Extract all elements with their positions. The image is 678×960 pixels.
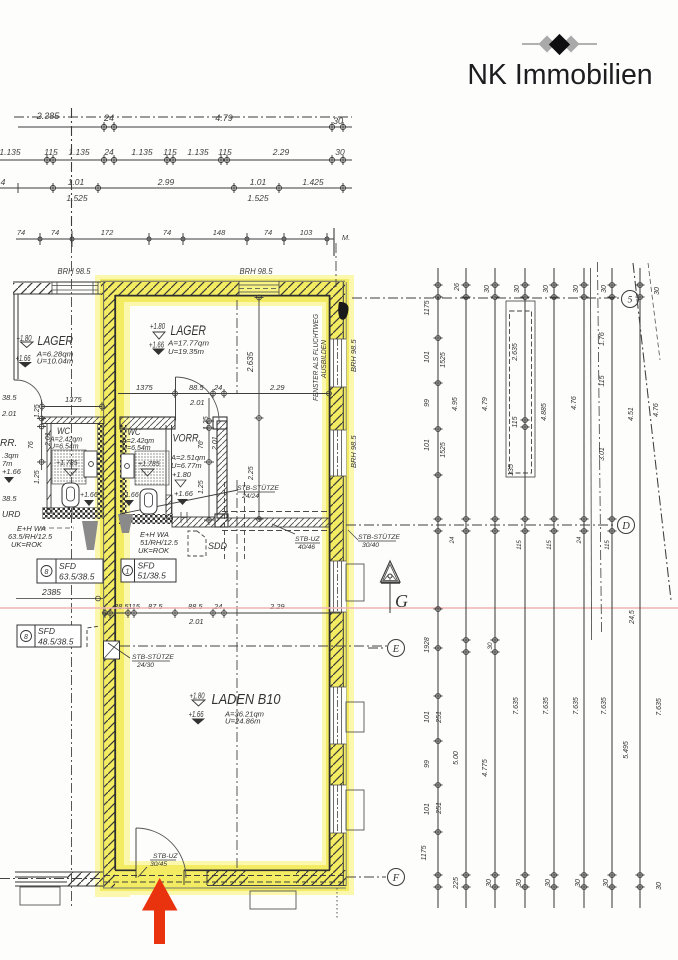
dimension tick circles rows 1-3 <box>18 122 346 247</box>
dim values VORR verticals rotated <box>198 416 255 494</box>
leader line STB-STUETZE 24/24 <box>120 490 238 514</box>
svg-text:1.25: 1.25 <box>203 416 210 430</box>
svg-text:+1.66: +1.66 <box>16 354 31 363</box>
svg-text:30: 30 <box>573 285 580 293</box>
duct funnel left of party wall <box>82 521 98 550</box>
dim row 1 dash-dot line <box>14 116 352 118</box>
svg-text:30: 30 <box>601 285 608 293</box>
svg-text:30: 30 <box>484 285 491 293</box>
left strip partial labels <box>0 393 53 549</box>
svg-text:BRH 98.5: BRH 98.5 <box>58 267 92 276</box>
svg-text:115: 115 <box>218 147 232 157</box>
beam STB-UZ 40/46 <box>228 518 329 527</box>
dim values LADEN y609 <box>114 602 285 626</box>
svg-text:1: 1 <box>126 569 130 576</box>
svg-text:1525: 1525 <box>440 352 447 368</box>
wall band under VORR <box>172 517 215 527</box>
dashed pair vorr-laden passage <box>224 482 226 562</box>
dim values left LAGER <box>65 395 83 404</box>
survey triangle G <box>381 561 401 582</box>
dim row 2 base line <box>0 159 352 161</box>
svg-text:7.635: 7.635 <box>573 697 580 715</box>
SFD box 1 (51/38.5) <box>121 559 176 582</box>
dim vertical x209 VORR <box>208 398 210 525</box>
svg-text:30: 30 <box>603 879 610 887</box>
svg-text:5.495: 5.495 <box>623 741 630 759</box>
circled axis marker E <box>388 640 405 657</box>
svg-text:+1.80: +1.80 <box>190 692 205 701</box>
logo right rule <box>573 43 597 45</box>
wall: top exterior of unit <box>101 282 345 295</box>
svg-text:G: G <box>395 591 408 611</box>
svg-text:1175: 1175 <box>421 845 428 860</box>
svg-text:63.5/38.5: 63.5/38.5 <box>59 572 95 582</box>
wall: WC1 south checkered band <box>42 507 104 519</box>
svg-text:STB-STÜTZE: STB-STÜTZE <box>358 533 400 541</box>
duct funnel right of party wall <box>118 514 133 533</box>
room label LAGER main <box>149 322 209 356</box>
svg-text:38.5: 38.5 <box>2 393 17 402</box>
svg-text:SFD: SFD <box>38 626 55 636</box>
svg-text:4.885: 4.885 <box>541 403 548 421</box>
svg-text:1.525: 1.525 <box>247 193 269 203</box>
svg-text:2.01: 2.01 <box>189 398 205 407</box>
svg-text:NK Immobilien: NK Immobilien <box>467 59 652 91</box>
svg-text:2.635: 2.635 <box>512 343 519 362</box>
svg-text:4.775: 4.775 <box>482 759 489 777</box>
axis dash-dot y877 right of plan <box>346 876 386 878</box>
svg-text:101: 101 <box>424 803 431 815</box>
wall: WC1 west <box>47 423 51 514</box>
svg-text:8: 8 <box>45 569 49 576</box>
WC2 shower stipple <box>135 451 169 485</box>
svg-text:1928: 1928 <box>424 637 431 653</box>
svg-text:2.01: 2.01 <box>212 436 219 451</box>
porch rect below neighbour wall <box>20 887 60 905</box>
wall: LAGER south / WC2 north <box>120 417 175 429</box>
svg-text:24: 24 <box>577 536 583 544</box>
svg-text:UK=ROK: UK=ROK <box>11 540 43 549</box>
svg-text:1375: 1375 <box>136 383 154 392</box>
SFD box 8b (48.5/38.5) <box>17 625 81 647</box>
svg-text:4.79: 4.79 <box>482 397 489 411</box>
svg-text:99: 99 <box>424 399 431 407</box>
circled axis marker 5 <box>622 291 639 308</box>
room label LADEN B10 <box>189 692 281 726</box>
grid line A tick chain <box>434 283 443 890</box>
svg-text:BRH 98.5: BRH 98.5 <box>240 267 274 276</box>
svg-text:SFD: SFD <box>59 561 76 571</box>
svg-text:+1.80: +1.80 <box>172 470 192 479</box>
svg-text:1.76: 1.76 <box>599 332 606 346</box>
svg-text:1175: 1175 <box>424 300 431 315</box>
dashed threshold lines along bottom wall <box>104 876 345 883</box>
svg-text:1.25: 1.25 <box>34 404 41 418</box>
grid vertical lines <box>437 268 439 908</box>
logo small gray diamond left <box>539 36 556 53</box>
svg-text:+1.80: +1.80 <box>150 322 165 331</box>
svg-text:30: 30 <box>514 285 521 293</box>
label STB-UZ 40/46 <box>295 536 320 551</box>
svg-text:30: 30 <box>656 882 663 890</box>
door arc LAGER-VORR <box>176 377 220 421</box>
svg-text:26: 26 <box>454 283 461 292</box>
svg-text:UK=ROK: UK=ROK <box>138 546 170 555</box>
horizontal axis dash-dot y299 to circled 5 <box>352 297 620 299</box>
wall: bottom of unit <box>207 870 346 886</box>
porch rect below unit wall <box>250 891 296 909</box>
svg-text:5: 5 <box>628 296 633 306</box>
dim line LAGER y393 <box>118 393 329 395</box>
svg-text:172: 172 <box>101 228 114 237</box>
wall: right exterior wall piers <box>330 282 343 886</box>
room label WC1 <box>49 426 98 506</box>
column break in left wall (STB 24/30) <box>104 641 120 659</box>
svg-text:30: 30 <box>486 879 493 887</box>
svg-text:38.5: 38.5 <box>2 494 17 503</box>
svg-text:1525: 1525 <box>440 442 447 458</box>
column STB 24/24 <box>215 514 228 527</box>
svg-text:STB-UZ: STB-UZ <box>153 853 178 860</box>
SDD dashed outline <box>188 531 206 556</box>
axis dash-dot x237 through plan <box>236 300 238 394</box>
slanted boundary dash-dot <box>633 263 671 600</box>
svg-text:2.01: 2.01 <box>45 432 52 447</box>
svg-text:STB-STÜTZE: STB-STÜTZE <box>132 653 174 661</box>
svg-text:115: 115 <box>599 375 606 386</box>
svg-text:251: 251 <box>436 711 443 724</box>
wall: WC2/VORR partition <box>166 425 172 514</box>
wall: corner piece at VORR door <box>213 417 227 429</box>
svg-text:24/24: 24/24 <box>241 493 259 500</box>
svg-text:U=6.77m: U=6.77m <box>171 461 202 470</box>
svg-text:M.: M. <box>342 233 350 242</box>
svg-text:2.01: 2.01 <box>188 617 204 626</box>
svg-text:30/45: 30/45 <box>150 861 167 868</box>
svg-text:30: 30 <box>335 147 345 157</box>
leader line STB-STUETZE 24/30 <box>108 643 130 658</box>
dashed stub next to box 8b <box>87 626 100 647</box>
svg-text:2.385: 2.385 <box>36 111 61 121</box>
svg-text:LADEN B10: LADEN B10 <box>212 692 281 708</box>
svg-text:115: 115 <box>128 602 141 611</box>
svg-text:SDD: SDD <box>208 541 228 551</box>
leader line STB-UZ 30/45 <box>138 867 147 877</box>
svg-text:251: 251 <box>436 802 443 815</box>
svg-text:AUSBILDEN: AUSBILDEN <box>321 339 328 379</box>
svg-text:3.01: 3.01 <box>599 447 606 461</box>
svg-text:FENSTER ALS FLUCHTWEG: FENSTER ALS FLUCHTWEG <box>313 313 320 401</box>
svg-text:STB-UZ: STB-UZ <box>295 536 320 543</box>
door arc: neighbour left door <box>16 380 42 406</box>
svg-text:30/40: 30/40 <box>362 542 379 549</box>
dashed second slant <box>648 263 660 360</box>
dim values LAGER y390 <box>136 383 285 407</box>
WC2 washbasin <box>121 454 134 478</box>
svg-text:24/30: 24/30 <box>136 662 154 669</box>
svg-text:RR.: RR. <box>0 438 17 449</box>
svg-text:7.635: 7.635 <box>513 697 520 715</box>
svg-text:103: 103 <box>300 228 313 237</box>
svg-text:51/38.5: 51/38.5 <box>138 571 167 581</box>
svg-text:A=2.42qm: A=2.42qm <box>49 437 82 444</box>
WC1 toilet <box>62 483 79 507</box>
svg-text:30: 30 <box>545 879 552 887</box>
svg-text:BRH 98.5: BRH 98.5 <box>349 339 358 372</box>
svg-text:115: 115 <box>163 147 177 157</box>
leader line STB-UZ 40/46 <box>272 524 295 534</box>
svg-text:225: 225 <box>453 877 460 890</box>
svg-text:30: 30 <box>516 879 523 887</box>
SFD box 8a (63.5/38.5) <box>37 559 103 583</box>
window: neighbour top window <box>52 282 98 294</box>
svg-text:BRH 98.5: BRH 98.5 <box>349 435 358 468</box>
svg-text:24: 24 <box>213 383 222 392</box>
svg-text:U=6.54m: U=6.54m <box>50 444 79 451</box>
svg-text:1.135: 1.135 <box>0 147 21 157</box>
dimension numbers <box>0 111 350 276</box>
svg-text:LAGER: LAGER <box>38 333 74 348</box>
svg-text:+1.785: +1.785 <box>138 461 160 468</box>
svg-text:88.5: 88.5 <box>189 383 204 392</box>
svg-text:1.135: 1.135 <box>68 147 90 157</box>
label STB-STUETZE 24/30 <box>132 653 174 669</box>
svg-text:5.00: 5.00 <box>453 751 460 765</box>
svg-text:1.25: 1.25 <box>34 470 41 484</box>
window: right wall w5 <box>330 785 346 833</box>
svg-text:30: 30 <box>333 116 343 126</box>
svg-text:URD: URD <box>2 509 20 519</box>
svg-text:+1.785: +1.785 <box>56 460 78 467</box>
svg-text:87.5: 87.5 <box>148 602 163 611</box>
svg-text:SFD: SFD <box>138 561 155 571</box>
partition hatch lower WC2/VORR <box>166 495 172 519</box>
E+H WA label VORR side <box>138 530 179 555</box>
svg-text:40/46: 40/46 <box>298 544 315 551</box>
svg-text:99: 99 <box>424 760 431 768</box>
svg-text:74: 74 <box>17 228 25 237</box>
door leaf LADEN entrance <box>135 828 137 878</box>
svg-text:8: 8 <box>24 634 28 641</box>
svg-text:7.635: 7.635 <box>601 697 608 715</box>
wall: left party wall of unit <box>104 282 115 888</box>
svg-text:+1.66: +1.66 <box>149 341 164 350</box>
grid bottom tick pairs <box>462 873 645 890</box>
room label LAGER left <box>16 333 74 368</box>
dim line left-LAGER y406 <box>42 406 102 408</box>
svg-text:24: 24 <box>213 602 222 611</box>
svg-text:2.29: 2.29 <box>272 147 290 157</box>
svg-text:115: 115 <box>605 540 611 550</box>
svg-text:VORR.: VORR. <box>173 433 202 445</box>
svg-text:WC: WC <box>128 427 141 438</box>
dim row 1 base line <box>18 126 352 128</box>
axis dash-dot x71.5 through plan <box>71 243 73 908</box>
svg-text:101: 101 <box>424 711 431 723</box>
svg-text:74: 74 <box>264 228 272 237</box>
svg-text:148: 148 <box>213 228 226 237</box>
dim row 4 base line <box>16 238 334 240</box>
svg-text:115: 115 <box>547 540 553 550</box>
black ink blob at top-right corner <box>338 302 348 320</box>
svg-text:101: 101 <box>424 351 431 363</box>
svg-text:4.76: 4.76 <box>653 403 660 417</box>
svg-text:30: 30 <box>654 287 661 295</box>
svg-text:7.635: 7.635 <box>543 697 550 715</box>
svg-text:+1.66: +1.66 <box>174 489 194 498</box>
wall: neighbour bottom left strip <box>15 872 103 886</box>
dim row 3 base line <box>0 187 352 189</box>
property line solid between F and G <box>591 268 592 640</box>
svg-text:2.29: 2.29 <box>269 383 285 392</box>
svg-text:115: 115 <box>44 147 58 157</box>
vertical label FENSTER ALS FLUCHTWEG <box>313 313 328 401</box>
svg-text:U=24.86m: U=24.86m <box>225 717 261 726</box>
svg-text:4.76: 4.76 <box>571 396 578 410</box>
svg-text:LAGER: LAGER <box>171 323 207 338</box>
label STB-STUETZE 24/24 <box>237 484 279 500</box>
svg-text:1.25: 1.25 <box>198 480 205 494</box>
vertical axis dash-dot through dims <box>71 108 73 243</box>
svg-text:24,5: 24,5 <box>629 610 636 625</box>
ticks on E-axis dash line y646 <box>462 638 500 655</box>
svg-text:1.135: 1.135 <box>187 147 209 157</box>
property dash-dot between F and G <box>598 262 602 632</box>
svg-text:+1.66: +1.66 <box>2 467 22 476</box>
svg-text:48.5/38.5: 48.5/38.5 <box>38 637 74 647</box>
wall: checkered strip west of party wall <box>97 423 104 519</box>
svg-text:74: 74 <box>163 228 171 237</box>
window: right wall w4 <box>330 687 346 744</box>
grid top tick pairs <box>462 283 645 300</box>
svg-text:30: 30 <box>487 642 494 650</box>
dim vertical x259 LAGER <box>258 297 260 520</box>
svg-text:2.635: 2.635 <box>246 351 255 373</box>
horizontal axis dash-dot y525 to circled D <box>346 524 614 526</box>
label STB-UZ 30/45 <box>150 853 178 868</box>
dim vertical x41.6 <box>41 400 43 470</box>
svg-text:24: 24 <box>450 536 456 544</box>
logo black diamond <box>549 34 570 55</box>
wall: WC2 south checkered band <box>119 514 173 524</box>
axis dash-dot x336 above plan <box>335 243 337 287</box>
window in top wall <box>239 281 279 296</box>
svg-text:1.525: 1.525 <box>66 193 88 203</box>
svg-text:30: 30 <box>543 285 550 293</box>
svg-text:115: 115 <box>517 540 523 550</box>
measuring rect pair on line D <box>506 301 535 477</box>
svg-text:2385: 2385 <box>41 587 61 597</box>
svg-text:115: 115 <box>512 416 519 427</box>
svg-text:7.635: 7.635 <box>656 698 663 716</box>
svg-text:135: 135 <box>508 464 515 476</box>
svg-text:1.135: 1.135 <box>131 147 153 157</box>
circled axis marker D <box>618 517 635 534</box>
wall: VORR east <box>217 421 227 518</box>
svg-text:76: 76 <box>198 441 205 449</box>
svg-text:30: 30 <box>575 879 582 887</box>
axis dash-dot x237 through LADEN <box>236 480 238 868</box>
WC1 shower stipple <box>52 450 86 484</box>
svg-text:1.01: 1.01 <box>68 177 85 187</box>
svg-text:WC: WC <box>57 426 70 437</box>
svg-text:2.29: 2.29 <box>269 602 285 611</box>
svg-text:2.01: 2.01 <box>1 409 17 418</box>
svg-text:4.79: 4.79 <box>215 113 233 123</box>
svg-text:U=10.04m: U=10.04m <box>37 357 74 366</box>
dim line LADEN y613 <box>102 612 340 614</box>
svg-text:1.01: 1.01 <box>250 177 267 187</box>
svg-text:2.99: 2.99 <box>157 177 175 187</box>
svg-text:1375: 1375 <box>65 395 83 404</box>
axis dash-dot y646 across LADEN <box>120 645 387 647</box>
svg-text:U=19.35m: U=19.35m <box>168 347 204 356</box>
svg-text:A=2.42qm: A=2.42qm <box>121 438 154 445</box>
window: right wall w1 <box>330 339 346 387</box>
svg-text:F: F <box>392 873 400 884</box>
svg-text:74: 74 <box>51 228 59 237</box>
room label WC2 <box>121 427 160 506</box>
axis dash-dot y877 left of plan <box>0 878 103 880</box>
logo left rule <box>522 43 546 45</box>
wall: WC1 north <box>42 417 104 424</box>
WC2 toilet <box>140 489 157 514</box>
exterior window reveal boxes right side <box>346 564 364 830</box>
svg-text:+1.66: +1.66 <box>80 492 98 499</box>
dim row 4 right end vertical <box>333 228 335 256</box>
svg-text:+1.66: +1.66 <box>189 710 204 719</box>
svg-text:2.25: 2.25 <box>248 466 255 481</box>
svg-text:D: D <box>621 521 630 532</box>
svg-text:1.425: 1.425 <box>302 177 324 187</box>
svg-text:4: 4 <box>1 177 6 187</box>
logo small gray diamond right <box>563 36 580 53</box>
room label VORR <box>170 433 205 506</box>
svg-text:E: E <box>392 644 400 655</box>
svg-text:+1.66: +1.66 <box>121 492 139 499</box>
svg-text:76: 76 <box>28 441 35 449</box>
svg-text:4.51: 4.51 <box>628 407 635 421</box>
svg-text:24: 24 <box>103 113 114 123</box>
svg-text:88.5: 88.5 <box>188 602 203 611</box>
svg-text:U=6.54m: U=6.54m <box>122 445 151 452</box>
window: right wall w2 <box>330 430 346 476</box>
circled axis marker F <box>388 869 405 886</box>
dotted continuation below right wall <box>336 888 338 920</box>
ticks on D-axis dash line y525 <box>462 517 617 534</box>
door arc LADEN entrance <box>136 828 186 878</box>
door leaf LAGER-VORR <box>175 377 177 421</box>
wall: neighbour far-left <box>14 294 18 380</box>
svg-text:STB-STÜTZE: STB-STÜTZE <box>237 484 279 492</box>
window: right wall w3 <box>330 561 346 612</box>
svg-text:4.95: 4.95 <box>452 397 459 411</box>
WC1 washbasin <box>84 451 97 477</box>
svg-text:24: 24 <box>103 147 114 157</box>
wall: neighbour top-left <box>13 283 52 294</box>
svg-text:101: 101 <box>424 439 431 451</box>
rotated small dims left <box>28 404 41 484</box>
wall: checkered strip east of party wall <box>120 425 127 519</box>
